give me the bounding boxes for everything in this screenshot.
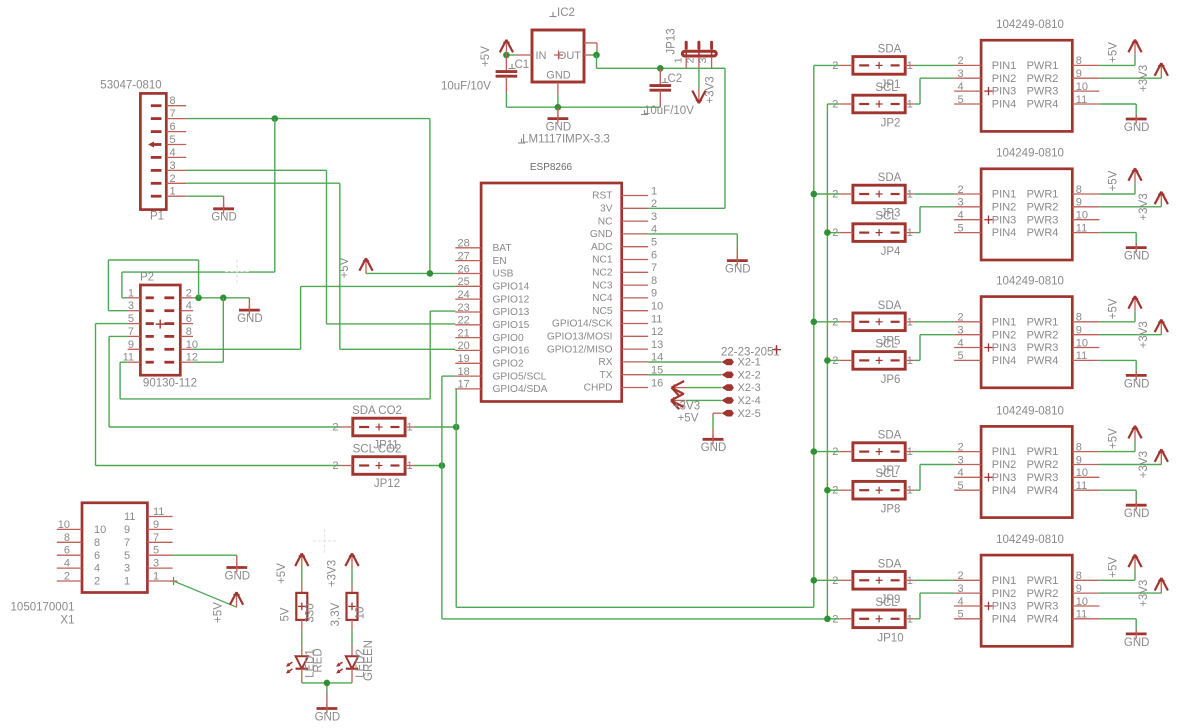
svg-text:8: 8 [1076, 55, 1082, 67]
svg-text:NC5: NC5 [592, 306, 613, 317]
svg-text:SDA: SDA [878, 172, 902, 184]
supply +5V arrow near ESP [359, 258, 372, 273]
svg-text:PWR3: PWR3 [1027, 601, 1059, 613]
svg-text:SDA: SDA [878, 430, 902, 442]
svg-text:9: 9 [1076, 197, 1082, 209]
svg-text:JP6: JP6 [881, 374, 901, 386]
svg-text:+5V: +5V [213, 602, 225, 623]
svg-text:EN: EN [493, 256, 507, 267]
svg-text:+3V3: +3V3 [1138, 193, 1150, 220]
svg-text:10: 10 [1076, 467, 1088, 479]
supply +5V arrow at X1 [230, 592, 243, 607]
connector X2 22-23-2051 [721, 345, 781, 358]
svg-text:1: 1 [907, 355, 913, 367]
connector P1 pin 2 [151, 173, 186, 185]
connector X2 pin X2-2 [722, 369, 761, 381]
wire JP1 pin1 to U1 PIN1 [914, 64, 954, 66]
svg-text:GPIO14: GPIO14 [493, 282, 530, 293]
connector JP8 pins [832, 485, 914, 497]
connector X1 pin 8 [57, 532, 100, 549]
svg-text:5V: 5V [280, 607, 292, 621]
svg-text:GND: GND [1124, 378, 1150, 390]
svg-text:3: 3 [958, 583, 964, 595]
svg-text:17: 17 [458, 379, 470, 391]
svg-text:4: 4 [64, 558, 70, 570]
connector JP2 body [853, 95, 905, 113]
supply +5V arrow at U2 [1128, 168, 1141, 183]
connector JP6 SCL [875, 338, 898, 350]
ground symbol at U5 [1124, 629, 1150, 649]
svg-text:PIN4: PIN4 [992, 99, 1016, 111]
svg-text:1: 1 [907, 446, 913, 458]
svg-text:1: 1 [673, 57, 685, 63]
svg-text:10: 10 [1076, 81, 1088, 93]
svg-text:GPIO5/SCL: GPIO5/SCL [493, 371, 547, 382]
IC ESP8266 [481, 162, 622, 402]
IC U3 pin 5 PIN4 [954, 350, 1016, 367]
wire U3 PWR1 to +5V [1099, 311, 1135, 322]
connector JP4 body [853, 224, 905, 242]
svg-text:OUT: OUT [558, 50, 582, 62]
svg-text:7: 7 [170, 108, 176, 120]
connector JP8 SCL [875, 468, 898, 480]
IC ESP8266 pin 2 3V [600, 198, 657, 214]
IC U1 pin 2 PIN1 [954, 55, 1016, 72]
wire P2 pin7 to JP11 [109, 336, 340, 427]
svg-text:8: 8 [170, 95, 176, 107]
connector P2 pins 3/4 [128, 300, 194, 312]
svg-text:GPIO13: GPIO13 [493, 307, 530, 318]
svg-text:JP8: JP8 [881, 504, 901, 516]
svg-text:SDA CO2: SDA CO2 [352, 405, 402, 417]
svg-text:11: 11 [124, 511, 135, 523]
IC U1 pin 5 PIN4 [954, 94, 1016, 111]
svg-text:X2-3: X2-3 [738, 382, 761, 394]
svg-text:4: 4 [958, 81, 964, 93]
connector JP1 SDA [878, 43, 902, 55]
ground symbol at P2 [237, 298, 263, 325]
svg-text:PWR2: PWR2 [1027, 329, 1059, 341]
wire LED cathodes to GND [302, 683, 352, 694]
connector JP4 pins [832, 227, 914, 239]
IC ESP8266 pin 8 NC3 [592, 275, 657, 291]
wire X2-3 to +3V3 [686, 387, 722, 389]
connector JP3 pins [832, 189, 914, 201]
resistor R2 value 10 [347, 593, 358, 620]
svg-text:1: 1 [170, 186, 176, 198]
IC U2 104249-0810 [981, 148, 1072, 260]
wire P2 pin12 to GND [193, 298, 223, 362]
IC U4 pin 10 PWR3 [1027, 467, 1100, 484]
svg-text:GND: GND [1124, 122, 1150, 134]
wire ESP TX to X2-2 [648, 374, 721, 376]
IC ESP8266 pin 15 TX [599, 365, 663, 381]
svg-text:10: 10 [355, 607, 367, 620]
svg-text:104249-0810: 104249-0810 [996, 534, 1064, 546]
connector X1 pin 3 [124, 558, 173, 575]
svg-text:+5V: +5V [1108, 557, 1120, 578]
svg-text:+3V3: +3V3 [1138, 65, 1150, 92]
svg-text:PWR4: PWR4 [1027, 613, 1059, 625]
svg-text:1: 1 [907, 316, 913, 328]
IC U2 pin 5 PIN4 [954, 222, 1016, 239]
wire JP6 pin1 to U3 PIN2 [914, 335, 954, 361]
svg-text:5: 5 [958, 94, 964, 106]
ground symbol at U2 [1124, 243, 1150, 263]
wire U3 PWR2 to +3V3 [1099, 334, 1161, 336]
connector P1 pin 4 [151, 147, 186, 159]
svg-text:8: 8 [651, 275, 657, 287]
svg-text:PIN2: PIN2 [992, 588, 1016, 600]
svg-text:3: 3 [697, 57, 709, 63]
connector JP11 SDA CO2 [352, 405, 402, 417]
svg-text:+3V3: +3V3 [327, 560, 339, 587]
svg-text:JP13: JP13 [665, 28, 677, 54]
wire JP2 pin1 to U1 PIN2 [914, 78, 954, 104]
svg-text:20: 20 [458, 340, 470, 352]
wire JP13 pin2 to +3V3 arrow [698, 68, 700, 88]
svg-text:7: 7 [651, 262, 657, 274]
IC U5 104249-0810 [981, 534, 1072, 646]
IC U4 pin 8 PWR1 [1027, 441, 1100, 458]
IC U2 pin 3 PIN2 [954, 197, 1016, 214]
wire LED2 cathode down [351, 669, 353, 683]
svg-text:104249-0810: 104249-0810 [996, 19, 1064, 31]
connector X1 pin 11 [124, 506, 173, 523]
wire SDA bus to JP7 pin2 [814, 451, 840, 453]
svg-text:6: 6 [94, 550, 100, 562]
svg-text:9: 9 [128, 339, 134, 351]
svg-text:GREEN: GREEN [363, 640, 375, 681]
svg-text:6: 6 [186, 313, 192, 325]
svg-text:104249-0810: 104249-0810 [996, 405, 1064, 417]
svg-text:GPIO12/MISO: GPIO12/MISO [547, 344, 613, 355]
junction node B [220, 295, 227, 302]
connector X1 pin 1 [124, 571, 173, 588]
IC ESP8266 pin 18 GPIO5/SCL [455, 366, 546, 382]
IC U2 pin 2 PIN1 [954, 184, 1016, 201]
connector JP1 pins [832, 60, 914, 72]
svg-text:1: 1 [407, 422, 413, 434]
svg-text:11: 11 [153, 506, 164, 518]
wire SCL net ESP GPIO5 to right side [442, 104, 828, 619]
svg-text:PWR4: PWR4 [1027, 355, 1059, 367]
connector JP10 pins [832, 613, 914, 625]
svg-text:PIN1: PIN1 [992, 316, 1016, 328]
svg-text:GND: GND [725, 263, 751, 275]
svg-text:5: 5 [958, 480, 964, 492]
IC U2 pin 9 PWR2 [1027, 197, 1100, 214]
IC U5 pin 4 PIN3 [954, 596, 1016, 613]
wire P2 pin10 to ESP GPIO14 [193, 286, 455, 349]
connector X2 pin X2-3 [722, 382, 761, 394]
svg-text:GND: GND [1124, 637, 1150, 649]
svg-text:1: 1 [907, 575, 913, 587]
svg-text:GPIO16: GPIO16 [493, 346, 530, 357]
connector X2 pin X2-5 [722, 408, 761, 420]
svg-text:4: 4 [94, 563, 100, 575]
svg-text:GPIO13/MOSI: GPIO13/MOSI [547, 332, 613, 343]
IC U1 pin 10 PWR3 [1027, 81, 1100, 98]
IC U3 pin 10 PWR3 [1027, 337, 1100, 354]
connector JP6 pins [832, 355, 914, 367]
svg-text:SCL: SCL [875, 211, 898, 223]
IC ESP8266 pin 27 EN [455, 250, 506, 266]
junction node SCL bus at JP6 [824, 357, 831, 364]
svg-text:27: 27 [458, 250, 470, 262]
svg-text:+3V3: +3V3 [705, 76, 717, 103]
connector X1 pin 2 [57, 571, 100, 588]
wire U5 PWR2 to +3V3 [1099, 592, 1161, 594]
svg-text:10uF/10V: 10uF/10V [644, 105, 694, 117]
IC ESP8266 pin 17 GPIO4/SDA [455, 379, 547, 395]
svg-text:PWR2: PWR2 [1027, 73, 1059, 85]
svg-text:IN: IN [536, 50, 547, 62]
svg-text:PIN2: PIN2 [992, 329, 1016, 341]
junction node LED GND [324, 680, 331, 687]
connector X1 pin 5 [124, 545, 173, 562]
wire SDA bus to JP5 pin2 [814, 321, 840, 323]
svg-text:JP12: JP12 [374, 478, 400, 490]
svg-text:PIN2: PIN2 [992, 73, 1016, 85]
svg-text:8: 8 [1076, 312, 1082, 324]
svg-text:22: 22 [458, 315, 470, 327]
wire U5 PWR4 to GND [1099, 619, 1136, 630]
IC ESP8266 pin 19 GPIO2 [455, 353, 524, 369]
wire JP9 pin1 to U5 PIN1 [914, 579, 954, 581]
svg-text:1: 1 [124, 576, 130, 588]
wire SDA net ESP GPIO4 to right side [455, 65, 814, 607]
svg-text:3: 3 [170, 160, 176, 172]
wire P2 pin3 to GND [108, 260, 198, 311]
svg-text:1: 1 [153, 571, 159, 583]
svg-text:10: 10 [1076, 210, 1088, 222]
svg-text:2: 2 [958, 184, 964, 196]
svg-text:PIN4: PIN4 [992, 613, 1016, 625]
ground symbol at ESP pin4 [725, 248, 751, 275]
IC U5 pin 3 PIN2 [954, 583, 1016, 600]
IC U1 104249-0810 [981, 19, 1072, 131]
resistor R1 value 330 [296, 593, 307, 620]
wire resistor R2 to LED2 [351, 620, 353, 656]
svg-text:NC4: NC4 [592, 293, 613, 304]
connector P1 pin 5 [148, 134, 186, 148]
connector JP11 pins [332, 422, 414, 434]
svg-text:7: 7 [124, 537, 130, 549]
IC ESP8266 pin 20 GPIO16 [455, 340, 529, 356]
svg-text:+3V3: +3V3 [1138, 321, 1150, 348]
svg-text:SCL: SCL [875, 597, 898, 609]
svg-text:PWR1: PWR1 [1027, 60, 1059, 72]
wire SCL bus to JP2 pin2 [827, 103, 840, 105]
IC U3 pin 2 PIN1 [954, 312, 1016, 329]
svg-text:11: 11 [1076, 94, 1087, 106]
svg-text:5: 5 [958, 350, 964, 362]
svg-text:RST: RST [592, 191, 612, 202]
IC U3 pin 8 PWR1 [1027, 312, 1100, 329]
svg-text:+5V: +5V [1108, 42, 1120, 63]
connector P2 pins 5/6 [128, 313, 194, 325]
wire +3V3 from OUT to JP13 [597, 55, 726, 68]
svg-text:8: 8 [94, 537, 100, 549]
svg-text:NC: NC [598, 216, 613, 227]
wire U4 PWR1 to +5V [1099, 441, 1135, 452]
svg-text:GND: GND [546, 70, 571, 82]
IC ESP8266 pin 16 CHPD [584, 377, 664, 393]
supply +3V3 arrow at U5 [1155, 578, 1168, 593]
LED LED2 GREEN [336, 656, 358, 673]
svg-text:GPIO0: GPIO0 [493, 333, 524, 344]
wire JP3 pin1 to U2 PIN1 [914, 193, 954, 195]
connector P2 90130-112 [140, 272, 180, 376]
wire +5V rail to ESP USB pin [366, 272, 455, 274]
IC U1 pin 9 PWR2 [1027, 68, 1100, 85]
IC ESP8266 pin 7 NC2 [592, 262, 657, 278]
wire SCL bus to JP4 pin2 [827, 232, 840, 234]
label C2 value 10uF/10V [641, 105, 694, 117]
IC U5 pin 2 PIN1 [954, 570, 1016, 587]
connector JP3 SDA [878, 172, 902, 184]
wire JP11 pin1 to SDA net [414, 426, 456, 428]
connector P1 pin 7 [151, 108, 186, 120]
svg-text:GND: GND [315, 712, 341, 724]
svg-text:2: 2 [94, 576, 100, 588]
svg-text:2: 2 [170, 173, 176, 185]
IC ESP8266 pin 10 NC5 [592, 301, 663, 317]
svg-text:+3V3: +3V3 [673, 401, 700, 413]
connector P1 pin 6 [151, 121, 186, 133]
wire ESP GND pin4 [648, 234, 737, 248]
IC ESP8266 pin 22 GPIO15 [455, 315, 529, 331]
svg-text:GPIO14/SCK: GPIO14/SCK [552, 319, 613, 330]
connector P2 pins 9/10 [128, 339, 198, 351]
connector JP12 SCL CO2 [353, 444, 402, 456]
connector P1 53047-0810 [100, 80, 166, 210]
svg-text:3: 3 [153, 558, 159, 570]
svg-text:GPIO15: GPIO15 [493, 320, 530, 331]
svg-text:PIN3: PIN3 [992, 214, 1016, 226]
wire U2 PWR2 to +3V3 [1099, 206, 1161, 208]
svg-text:25: 25 [458, 276, 470, 288]
svg-text:4: 4 [170, 147, 176, 159]
connector JP8 body [853, 481, 905, 499]
svg-text:+5V: +5V [1108, 428, 1120, 449]
supply +3V3 arrow at LED2 [345, 553, 358, 568]
wire JP8 pin1 to U4 PIN2 [914, 465, 954, 491]
junction node SDA bus at JP5 [811, 319, 818, 326]
wire resistor R1 to LED1 [301, 620, 303, 656]
wire SDA bus to JP3 pin2 [814, 193, 840, 195]
supply +5V arrow at U1 [1128, 40, 1141, 55]
svg-text:JP10: JP10 [877, 632, 903, 644]
IC U3 pin 3 PIN2 [954, 325, 1016, 342]
svg-text:X2-4: X2-4 [738, 395, 761, 407]
svg-text:8: 8 [1076, 184, 1082, 196]
connector JP4 SCL [875, 211, 898, 223]
IC ESP8266 pin 12 GPIO13/MOSI [547, 326, 663, 342]
svg-text:GPIO4/SDA: GPIO4/SDA [493, 384, 548, 395]
svg-text:8: 8 [64, 532, 70, 544]
svg-text:GND: GND [1124, 508, 1150, 520]
junction node SDA bus at JP3 [811, 191, 818, 198]
svg-text:SCL: SCL [875, 468, 898, 480]
junction node +3V3 at IC2 output [593, 52, 600, 59]
svg-text:PWR1: PWR1 [1027, 446, 1059, 458]
IC U4 pin 11 PWR4 [1027, 480, 1100, 497]
svg-text:PIN4: PIN4 [992, 485, 1016, 497]
svg-text:ESP8266: ESP8266 [530, 162, 573, 173]
supply +5V arrow at U3 [1128, 296, 1141, 311]
svg-text:GND: GND [211, 212, 237, 224]
connector X2 pin X2-4 [722, 395, 761, 407]
label LM1117IMPX-3.3 [518, 134, 610, 146]
IC ESP8266 pin 28 BAT [455, 238, 511, 254]
svg-text:JP2: JP2 [881, 118, 901, 130]
svg-text:2: 2 [332, 422, 338, 434]
wire X2-4 to +5V [686, 399, 722, 401]
connector X1 pin 4 [57, 558, 100, 575]
svg-text:X2-5: X2-5 [738, 408, 761, 420]
connector P2 pins 1/2 [128, 287, 194, 299]
svg-text:RED: RED [313, 648, 325, 672]
connector JP5 SDA [878, 300, 902, 312]
IC U2 pin 8 PWR1 [1027, 184, 1100, 201]
svg-text:GPIO12: GPIO12 [493, 294, 530, 305]
svg-text:12: 12 [651, 326, 663, 338]
wire GND rail under regulator [506, 93, 660, 107]
svg-text:PWR4: PWR4 [1027, 485, 1059, 497]
ground symbol at X1 [225, 555, 251, 582]
svg-text:GND: GND [546, 122, 572, 134]
svg-text:PWR3: PWR3 [1027, 214, 1059, 226]
svg-text:24: 24 [458, 289, 470, 301]
svg-text:7: 7 [128, 326, 134, 338]
junction node SDA bus at JP7 [811, 448, 818, 455]
svg-text:GND: GND [237, 313, 263, 325]
connector P1 pin 3 [151, 160, 186, 172]
svg-text:9: 9 [1076, 583, 1082, 595]
IC U1 pin 11 PWR4 [1027, 94, 1100, 111]
svg-text:3: 3 [128, 300, 134, 312]
connector JP12 pins [332, 460, 414, 472]
svg-text:5: 5 [153, 545, 159, 557]
svg-text:6: 6 [651, 249, 657, 261]
svg-text:PIN3: PIN3 [992, 86, 1016, 98]
svg-text:+3V3: +3V3 [1138, 580, 1150, 607]
wire P2 pin11 to ESP GPIO13 [120, 311, 455, 399]
svg-text:+3V3: +3V3 [1138, 451, 1150, 478]
wire SDA bus to JP9 pin2 [814, 579, 840, 581]
svg-text:BAT: BAT [493, 243, 512, 254]
svg-text:10uF/10V: 10uF/10V [441, 81, 491, 93]
svg-text:26: 26 [458, 263, 470, 275]
connector JP10 body [853, 610, 905, 628]
svg-text:P2: P2 [140, 272, 154, 284]
svg-text:PIN1: PIN1 [992, 189, 1016, 201]
svg-text:1: 1 [907, 60, 913, 72]
junction node at C2 [657, 65, 664, 72]
svg-text:PWR3: PWR3 [1027, 86, 1059, 98]
svg-text:11: 11 [1076, 609, 1087, 621]
svg-text:P1: P1 [150, 211, 164, 223]
svg-text:5: 5 [958, 222, 964, 234]
svg-text:10: 10 [58, 519, 70, 531]
svg-text:11: 11 [1076, 350, 1087, 362]
svg-text:PWR1: PWR1 [1027, 189, 1059, 201]
svg-text:C1: C1 [515, 59, 530, 71]
svg-text:PWR4: PWR4 [1027, 99, 1059, 111]
connector JP12 body [353, 457, 405, 475]
